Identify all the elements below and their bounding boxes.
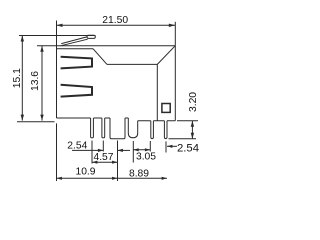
latch tip xyxy=(87,35,95,38)
dimension 21.50 xyxy=(57,24,176,26)
pin leg 4 xyxy=(151,121,154,139)
dimension 13.6 xyxy=(41,46,43,121)
rounded tab U xyxy=(128,118,137,138)
body right edge xyxy=(174,46,176,121)
bottom edge right section xyxy=(138,120,176,122)
svg-text:10.9: 10.9 xyxy=(75,167,95,178)
tower left edge xyxy=(156,64,158,120)
svg-text:2.54: 2.54 xyxy=(67,141,87,152)
inner opening right slant xyxy=(157,46,175,65)
svg-text:21.50: 21.50 xyxy=(102,15,128,26)
dimension 2.54 left xyxy=(72,149,130,151)
inner square window xyxy=(162,104,170,113)
body left edge xyxy=(56,21,58,119)
svg-text:13.6: 13.6 xyxy=(30,71,41,91)
body top edge upper (and 15.1 extension) xyxy=(19,35,96,37)
inner opening left slant xyxy=(93,49,107,65)
dimension 3.20 xyxy=(169,121,199,139)
dimension 3.05 xyxy=(133,149,150,151)
inner opening top line xyxy=(57,48,94,50)
body top edge (and 13.6 extension) xyxy=(37,45,175,47)
inner opening floor xyxy=(107,63,157,65)
dimension 2.54 right xyxy=(167,145,177,147)
latch arm xyxy=(61,37,88,46)
extension lines below pins xyxy=(57,123,167,181)
21.50 right extension line xyxy=(174,22,176,46)
bottom edge left section xyxy=(57,117,129,119)
svg-text:15.1: 15.1 xyxy=(12,68,23,88)
svg-text:2.54: 2.54 xyxy=(177,143,199,155)
svg-text:4.57: 4.57 xyxy=(93,152,113,163)
dimension 10.9 xyxy=(57,177,118,179)
dimension 15.1 xyxy=(17,36,55,122)
pin leg 5 xyxy=(164,121,167,139)
pin leg 1 xyxy=(91,118,94,138)
dimension 4.57 xyxy=(92,161,118,163)
contact spring upper xyxy=(61,57,92,69)
svg-text:8.89: 8.89 xyxy=(129,168,149,179)
wide mounting leg xyxy=(110,118,125,139)
dimension 8.89 xyxy=(118,177,168,179)
contact spring lower xyxy=(61,85,92,97)
svg-text:3.20: 3.20 xyxy=(188,92,199,112)
svg-text:3.05: 3.05 xyxy=(136,152,156,163)
pin leg 2 xyxy=(102,118,105,138)
